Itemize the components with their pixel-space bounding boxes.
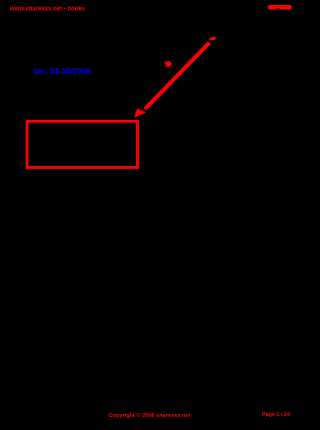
svg-text:Page 1 / 24: Page 1 / 24	[262, 412, 290, 418]
header logo bar (red, top-right)	[268, 5, 292, 10]
arrow tail dash	[209, 37, 216, 41]
arrow head (points to rectangle corner)	[134, 109, 146, 118]
small red pointer glyph	[164, 61, 172, 67]
highlight rectangle (red outline)	[27, 121, 138, 167]
svg-text:www.sharexxx.net - books: www.sharexxx.net - books	[9, 6, 86, 12]
diagonal arrow shaft	[145, 43, 210, 110]
svg-text:Ver. 03-30/2006: Ver. 03-30/2006	[34, 67, 91, 76]
svg-text:Copyright © 2006 sharexxx.net: Copyright © 2006 sharexxx.net	[109, 412, 191, 419]
